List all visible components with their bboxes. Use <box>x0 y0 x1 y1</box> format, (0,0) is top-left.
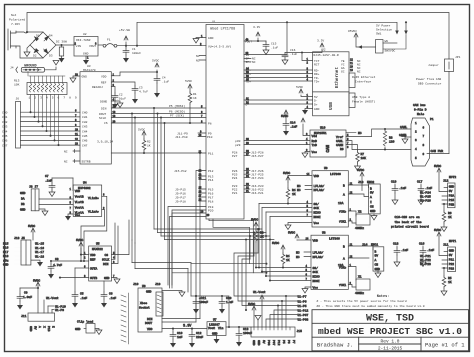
svg-text:DIN: DIN <box>101 108 107 111</box>
svg-text:Female (HOST): Female (HOST) <box>352 100 376 104</box>
svg-text:J9-P15: J9-P15 <box>175 189 186 192</box>
svg-text:DGND: DGND <box>100 101 107 104</box>
U9 A B wires to J13 <box>348 185 368 188</box>
svg-text:5V Power: 5V Power <box>376 25 391 28</box>
connector J4 GROUND block <box>16 67 45 73</box>
svg-text:P18: P18 <box>208 201 214 204</box>
clip lead loop <box>84 328 86 330</box>
U10 VSS pin <box>305 152 310 154</box>
svg-text:U1-P07: U1-P07 <box>298 314 309 317</box>
svg-text:fCKi: fCKi <box>339 220 346 224</box>
U6 DIN wire from P11 <box>162 318 200 320</box>
svg-text:CH0: CH0 <box>82 112 88 115</box>
svg-text:R5: R5 <box>448 277 452 280</box>
svg-text:U5: U5 <box>96 243 100 246</box>
USB jack symbol <box>349 93 355 108</box>
svg-text:U1-16: U1-16 <box>35 247 44 250</box>
U8 Vss pin <box>305 287 311 289</box>
U1 P13 P14 stubs <box>199 176 206 180</box>
svg-text:5VDC: 5VDC <box>288 232 295 235</box>
U1 right stubs P28 P27 <box>244 152 250 155</box>
svg-text:.1uF: .1uF <box>290 126 297 129</box>
capacitor C16 .1uF ethernet <box>282 53 288 65</box>
U1 bottom pin loop B <box>213 219 266 264</box>
svg-text:WU: WU <box>385 40 389 43</box>
svg-text:P5 (MOSI): P5 (MOSI) <box>169 104 185 108</box>
svg-text:J11: J11 <box>443 244 449 247</box>
U9 SPI wires SS SCK MISO MOSI <box>259 203 312 205</box>
svg-text:mbed LPC1768: mbed LPC1768 <box>210 27 235 32</box>
U1 P15-P18 stubs <box>199 189 206 201</box>
svg-text:U1-Vout: U1-Vout <box>46 297 59 300</box>
svg-text:C18: C18 <box>393 243 399 246</box>
svg-text:SCK: SCK <box>314 207 320 210</box>
svg-text:GND: GND <box>75 328 81 331</box>
svg-text:RxD: RxD <box>312 140 318 143</box>
J12 signal wires from stubs <box>442 196 448 204</box>
svg-text:GND: GND <box>83 53 89 56</box>
svg-text:4.7uF: 4.7uF <box>53 264 62 267</box>
svg-text:Jumper: Jumper <box>428 64 439 67</box>
svg-text:I: I <box>370 201 372 204</box>
svg-text:CH0: CH0 <box>2 112 8 115</box>
U3 NC stubs <box>73 150 80 153</box>
U1 VOUT pin to 3.3V <box>244 40 266 42</box>
svg-text:VLinB+: VLinB+ <box>88 196 99 200</box>
svg-text:1uF: 1uF <box>177 336 183 339</box>
svg-text:U2: U2 <box>83 33 87 36</box>
svg-text:ENC2: ENC2 <box>367 181 374 184</box>
svg-text:Xbee: Xbee <box>140 301 147 305</box>
svg-text:100uF: 100uF <box>199 301 208 304</box>
svg-text:GND: GND <box>212 333 218 336</box>
svg-text:D4: D4 <box>49 35 53 38</box>
svg-text:A: A <box>38 326 41 328</box>
bridge rectifier D1 D2 D3 D4 <box>30 32 56 58</box>
svg-text:J18 J5: J18 J5 <box>14 237 25 240</box>
svg-text:LFLAG/: LFLAG/ <box>313 251 324 255</box>
svg-text:GND: GND <box>401 135 407 138</box>
svg-text:5VDC: 5VDC <box>33 280 40 283</box>
J15 power pin 5VDC <box>252 306 256 327</box>
5VDC arrow right of U9 <box>360 172 364 191</box>
U8 LFLAG DFLAG NC stubs <box>304 252 311 257</box>
svg-text:5V: 5V <box>34 326 37 330</box>
connector J6 channel header <box>16 102 21 149</box>
svg-text:P24: P24 <box>232 177 238 180</box>
svg-text:C5: C5 <box>80 293 84 296</box>
svg-text:CS: CS <box>105 254 109 257</box>
3.3V rail xbee VDD to U7 Vout <box>162 328 207 330</box>
svg-text:NC: NC <box>357 71 361 74</box>
svg-text:R13: R13 <box>14 80 20 83</box>
svg-text:CH: CH <box>370 206 374 209</box>
R13 pin leads down to channel bus with junctions <box>31 95 59 146</box>
svg-text:CH2: CH2 <box>82 121 88 124</box>
svg-text:CH1: CH1 <box>82 116 88 119</box>
5VDC power arrow at U3 <box>155 63 159 72</box>
svg-text:fCKo: fCKo <box>339 210 346 214</box>
svg-text:X: X <box>43 326 46 328</box>
svg-text:U8: U8 <box>322 232 326 235</box>
svg-text:VDD: VDD <box>313 240 319 243</box>
svg-text:5VDC: 5VDC <box>434 165 441 168</box>
svg-text:ENC1: ENC1 <box>371 244 378 247</box>
svg-text:fCKo: fCKo <box>339 266 346 270</box>
svg-text:J17-P24: J17-P24 <box>251 177 264 180</box>
fuse F1 <box>103 44 117 48</box>
svg-text:Selection: Selection <box>376 28 392 32</box>
connector P1 CAN DB9 male <box>411 118 430 166</box>
svg-text:OUTB: OUTB <box>90 277 97 280</box>
svg-text:100uF: 100uF <box>132 52 141 55</box>
J15 fan wire P6 <box>282 301 297 327</box>
svg-text:U1-P08: U1-P08 <box>298 319 309 322</box>
svg-text:Power from CAN: Power from CAN <box>416 77 441 81</box>
svg-text:1K: 1K <box>448 216 452 219</box>
svg-text:GND: GND <box>3 263 9 266</box>
capacitor C18 .1uF <box>394 246 400 267</box>
svg-text:P7: P7 <box>292 340 295 344</box>
svg-text:NC: NC <box>297 185 301 188</box>
svg-text:R4: R4 <box>292 189 296 192</box>
svg-text:P21: P21 <box>449 259 455 262</box>
labels right connectors <box>358 165 456 284</box>
svg-text:U7: U7 <box>213 319 217 322</box>
capacitor C8 4.7uF on REF line <box>51 260 89 262</box>
svg-text:VIN: VIN <box>76 45 82 48</box>
svg-text:DA: DA <box>21 198 25 201</box>
svg-text:DOUT: DOUT <box>99 113 106 116</box>
svg-text:fCKi: fCKi <box>339 283 346 287</box>
J15 U1-Vout pin <box>260 295 264 327</box>
svg-text:J9-P16: J9-P16 <box>175 193 186 196</box>
U1 P20 wire down left <box>170 217 207 289</box>
svg-text:P27: P27 <box>232 155 238 158</box>
svg-text:DFLAG/: DFLAG/ <box>314 188 325 192</box>
svg-text:+5V-SW: +5V-SW <box>119 29 130 32</box>
capacitor C19 .1uF <box>392 184 398 205</box>
svg-text:1.uF: 1.uF <box>226 301 233 304</box>
svg-text:U1-15: U1-15 <box>35 243 44 246</box>
svg-text:.1uF: .1uF <box>80 297 87 300</box>
svg-text:Vref: Vref <box>336 135 343 139</box>
svg-text:DFLAG/: DFLAG/ <box>313 255 324 259</box>
svg-text:Male: Male <box>417 112 424 116</box>
svg-text:GND: GND <box>449 186 455 189</box>
svg-text:U1-P24: U1-P24 <box>420 192 431 195</box>
wire jack to bridge top <box>28 31 43 33</box>
U1 P12 wire down to xbee dout <box>196 171 206 323</box>
capacitor C10 1uF <box>170 329 176 348</box>
svg-text:5VDC: 5VDC <box>76 239 83 242</box>
svg-text:U1-P6: U1-P6 <box>298 301 307 304</box>
U9 VDD pin with 5VDC <box>288 176 312 183</box>
svg-text:J16-P21: J16-P21 <box>251 192 264 195</box>
svg-text:CS: CS <box>104 122 108 125</box>
svg-text:GND: GND <box>257 340 260 346</box>
svg-text:RJ45 Ethernet: RJ45 Ethernet <box>352 75 376 79</box>
switch SW1 <box>376 40 384 53</box>
svg-text:C3: C3 <box>139 87 143 90</box>
svg-text:C15: C15 <box>271 43 277 46</box>
capacitor C4 .1uF <box>154 72 160 98</box>
svg-text:NC: NC <box>358 132 362 135</box>
svg-text:OKI-78SR: OKI-78SR <box>76 39 91 42</box>
svg-text:+C11: +C11 <box>199 297 206 300</box>
bus joins from SPI verticals <box>129 240 132 246</box>
svg-text:R4: R4 <box>286 255 290 258</box>
svg-text:10K: 10K <box>361 157 367 160</box>
svg-text:CANH: CANH <box>336 144 343 147</box>
svg-text:VDD: VDD <box>147 328 153 331</box>
svg-text:CH5: CH5 <box>82 135 88 138</box>
capacitor C11 100uF <box>193 296 199 314</box>
lower horizontal bus to xbee <box>131 240 133 263</box>
svg-text:MISO: MISO <box>313 276 320 279</box>
svg-text:D+: D+ <box>314 104 318 107</box>
J11 pin wires with labels <box>48 306 54 314</box>
svg-text:CH2: CH2 <box>2 121 8 124</box>
svg-text:VoutA: VoutA <box>75 206 84 209</box>
text labels power section <box>9 14 461 86</box>
svg-text:.1uF: .1uF <box>271 47 278 50</box>
USB 5V pin wire <box>301 95 313 97</box>
svg-text:P20: P20 <box>208 210 214 213</box>
verticals to U9/U8 SPI <box>258 204 260 230</box>
connector J1 power jack <box>8 29 28 50</box>
svg-text:TxD: TxD <box>312 144 318 147</box>
svg-text:3.3V: 3.3V <box>253 26 260 29</box>
U4 VLinA wire down to VDD line <box>81 210 105 255</box>
capacitor C9 1.0uF <box>20 287 38 289</box>
svg-text:VLinA+: VLinA+ <box>88 209 99 213</box>
svg-text:P08: P08 <box>267 340 270 346</box>
svg-text:CH: CH <box>375 264 379 267</box>
5V feed wire with caps <box>196 296 229 327</box>
svg-text:MOT1: MOT1 <box>449 240 456 243</box>
svg-text:.1uF: .1uF <box>425 187 432 190</box>
connector J11 MOT1 <box>448 247 456 272</box>
svg-text:CH3: CH3 <box>2 126 8 129</box>
svg-text:P6: P6 <box>287 340 290 344</box>
svg-text:40MHz: 40MHz <box>355 292 364 295</box>
connector J12 MOT2 <box>448 183 455 208</box>
svg-text:Page #1 of 1: Page #1 of 1 <box>425 342 465 349</box>
+5V-SW power arrow <box>124 36 128 46</box>
U1 P11 wire down to xbee din <box>199 153 201 319</box>
svg-text:GROUND: GROUND <box>24 65 37 69</box>
svg-text:D3: D3 <box>49 55 53 58</box>
U3 REF pin wire and capacitor C3 4.7uF <box>111 82 135 86</box>
wire jack bottom to bridge bottom <box>16 46 43 58</box>
J15 fan wire P07 <box>270 315 297 328</box>
svg-text:P15: P15 <box>449 199 455 202</box>
svg-text:A: A <box>370 196 372 199</box>
svg-text:Interface: Interface <box>355 80 371 84</box>
svg-text:Vdd: Vdd <box>312 134 318 138</box>
svg-text:C6: C6 <box>109 293 113 296</box>
svg-text:A: A <box>375 259 377 262</box>
RJ45 jack symbol <box>349 73 355 88</box>
svg-text:P15: P15 <box>3 243 9 246</box>
svg-text:U4: U4 <box>83 182 87 185</box>
svg-text:P07: P07 <box>272 340 275 346</box>
svg-text:Clip lead: Clip lead <box>77 320 93 324</box>
svg-text:R6: R6 <box>448 212 452 215</box>
svg-text:5V: 5V <box>449 254 453 257</box>
wire JP1 to CAN DB9 pin9 <box>448 72 450 154</box>
svg-text:D2: D2 <box>33 55 37 58</box>
labels U5 area <box>3 225 116 300</box>
svg-text:C10: C10 <box>177 332 183 335</box>
svg-text:U1-P23: U1-P23 <box>420 263 431 266</box>
svg-text:RD+: RD+ <box>314 73 320 76</box>
svg-text:3,9,10,24: 3,9,10,24 <box>97 141 113 144</box>
svg-text:.1uF: .1uF <box>162 81 169 84</box>
J12 5VDC feed <box>437 168 448 192</box>
svg-text:CH6: CH6 <box>2 140 8 143</box>
U5 CS SCLK DIN wires up <box>112 220 130 255</box>
svg-text:CH6: CH6 <box>82 140 88 143</box>
svg-text:VDD: VDD <box>90 254 96 257</box>
3.3V arrow at ethernet <box>320 43 324 47</box>
J11 5VDC feed <box>437 232 448 256</box>
svg-text:SCLK: SCLK <box>99 117 106 120</box>
wire 5V rail to U1 VU <box>117 45 206 47</box>
svg-text:5V: 5V <box>370 192 374 195</box>
svg-text:JP1: JP1 <box>455 56 461 59</box>
svg-text:1 2 3 4 5 6 7 8 9: 1 2 3 4 5 6 7 8 9 <box>29 97 78 100</box>
svg-text:NC: NC <box>297 189 301 192</box>
J15 fan wire P7 <box>286 296 297 327</box>
svg-text:X2: X2 <box>358 211 362 214</box>
svg-text:VDD: VDD <box>75 190 81 193</box>
SPI vertical lower joins <box>154 229 258 234</box>
svg-text:U1-17: U1-17 <box>35 251 44 254</box>
svg-text:P11: P11 <box>208 153 214 156</box>
U1 P19 wire down left <box>172 213 206 288</box>
svg-text:7-36V: 7-36V <box>11 23 20 26</box>
wire from CAN pwr to SW1 <box>405 22 407 33</box>
svg-text:CH4: CH4 <box>2 130 8 133</box>
svg-text:U6: U6 <box>142 285 146 288</box>
svg-text:CAN: CAN <box>327 144 331 152</box>
resistor R4 1K <box>286 188 290 200</box>
svg-text:Bradshaw J.: Bradshaw J. <box>317 342 353 349</box>
capacitor C20 1uF <box>219 296 225 314</box>
connector J13 ENC2 <box>369 184 381 214</box>
U8 VDD pin with 5VDC <box>297 239 311 241</box>
svg-text:Vss: Vss <box>75 214 81 217</box>
svg-text:22uF: 22uF <box>196 336 203 339</box>
svg-text:NC: NC <box>64 151 68 154</box>
svg-text:SCLK: SCLK <box>102 259 109 262</box>
capacitor C14 .1uF near U10 <box>283 110 289 136</box>
svg-text:P23: P23 <box>449 268 455 271</box>
svg-text:VDD: VDD <box>101 76 107 79</box>
svg-text:J15-P27: J15-P27 <box>251 155 264 158</box>
junction dots on SPI bus <box>153 107 155 109</box>
svg-text:5VDC: 5VDC <box>434 229 441 232</box>
U10 CANL wire to DB9 <box>346 129 411 137</box>
svg-text:P16: P16 <box>3 247 9 250</box>
labels CAN section <box>281 103 443 160</box>
connector J5 J18 P15-P18 header <box>21 240 31 265</box>
svg-text:U3: U3 <box>87 65 91 68</box>
xbee socket U6 <box>138 288 162 332</box>
svg-text:J11: J11 <box>21 315 27 318</box>
CAN transceiver U10 MCP2551 <box>310 130 346 157</box>
labels xbee and U7 <box>133 283 252 339</box>
svg-text:GC: GC <box>341 70 345 73</box>
svg-text:REF: REF <box>90 259 96 262</box>
raw DC rail top: jack to JP1 <box>27 13 449 60</box>
U8 SPI wires SS SCK MISO MOSI <box>259 267 311 269</box>
svg-text:VoutB: VoutB <box>75 196 84 199</box>
svg-text:NC: NC <box>252 61 256 64</box>
svg-text:1K: 1K <box>286 259 290 262</box>
svg-text:CH3: CH3 <box>82 126 88 129</box>
capacitor C13 100uF <box>236 327 242 347</box>
resistor R1 1K pullup <box>188 84 192 123</box>
svg-text:U10: U10 <box>320 127 326 130</box>
DB9 GND pin wire <box>405 137 411 139</box>
labels bottom-left <box>21 280 93 332</box>
svg-text:12A: 12A <box>338 202 344 205</box>
capacitor C17 .1uF <box>418 184 424 205</box>
svg-text:U1-P26: U1-P26 <box>420 200 431 203</box>
U1 P9 P10 stubs <box>198 133 206 137</box>
U5 VDD 5VDC <box>81 248 89 255</box>
svg-text:CH5: CH5 <box>2 135 8 138</box>
svg-text:LS7366: LS7366 <box>329 238 340 241</box>
svg-text:SCK: SCK <box>313 271 319 274</box>
labels U4 area <box>20 175 99 217</box>
TVS / filter component near bridge <box>59 45 65 63</box>
U1 right stubs P23 P22 P21 <box>244 186 250 193</box>
svg-text:GND: GND <box>449 250 455 253</box>
labels J2 <box>235 26 376 147</box>
svg-text:U1-P25: U1-P25 <box>420 196 431 199</box>
labels U1 left side <box>138 21 235 213</box>
svg-text:GND: GND <box>208 37 214 40</box>
svg-text:GND: GND <box>82 76 88 79</box>
svg-text:J9-P18: J9-P18 <box>175 201 186 204</box>
svg-text:U1-Vout: U1-Vout <box>253 291 266 294</box>
svg-text:C16-C20 are on: C16-C20 are on <box>395 216 420 219</box>
svg-text:U1-P22: U1-P22 <box>420 259 431 262</box>
U8 crystal X1 40MHz <box>348 267 356 281</box>
ground at bridge left <box>24 45 30 57</box>
J15 ground pin <box>255 316 261 321</box>
U9 LFLAG DFLAG NC stubs <box>305 186 312 190</box>
J15 fan wire P08 <box>266 319 297 327</box>
svg-text:P6 (MISO): P6 (MISO) <box>169 110 185 114</box>
wires CH0-CH7 J6 to U3 <box>21 112 81 145</box>
U10 VDD pin <box>303 124 310 136</box>
svg-text:REFADJ: REFADJ <box>92 86 103 89</box>
svg-text:P10: P10 <box>207 136 213 139</box>
svg-text:U1-P21: U1-P21 <box>420 255 431 258</box>
U5 OUTA wire and capacitor C5 <box>75 267 89 269</box>
SPI bus verticals going down <box>153 108 155 229</box>
ethernet wires RD- RD+ TD- TD+ <box>244 69 313 71</box>
U9 crystal X2 40MHz <box>348 211 356 216</box>
svg-text:4.7uF: 4.7uF <box>139 91 148 94</box>
svg-text:C9: C9 <box>24 292 28 295</box>
DB9 CAN PWR pin wire <box>427 153 449 155</box>
